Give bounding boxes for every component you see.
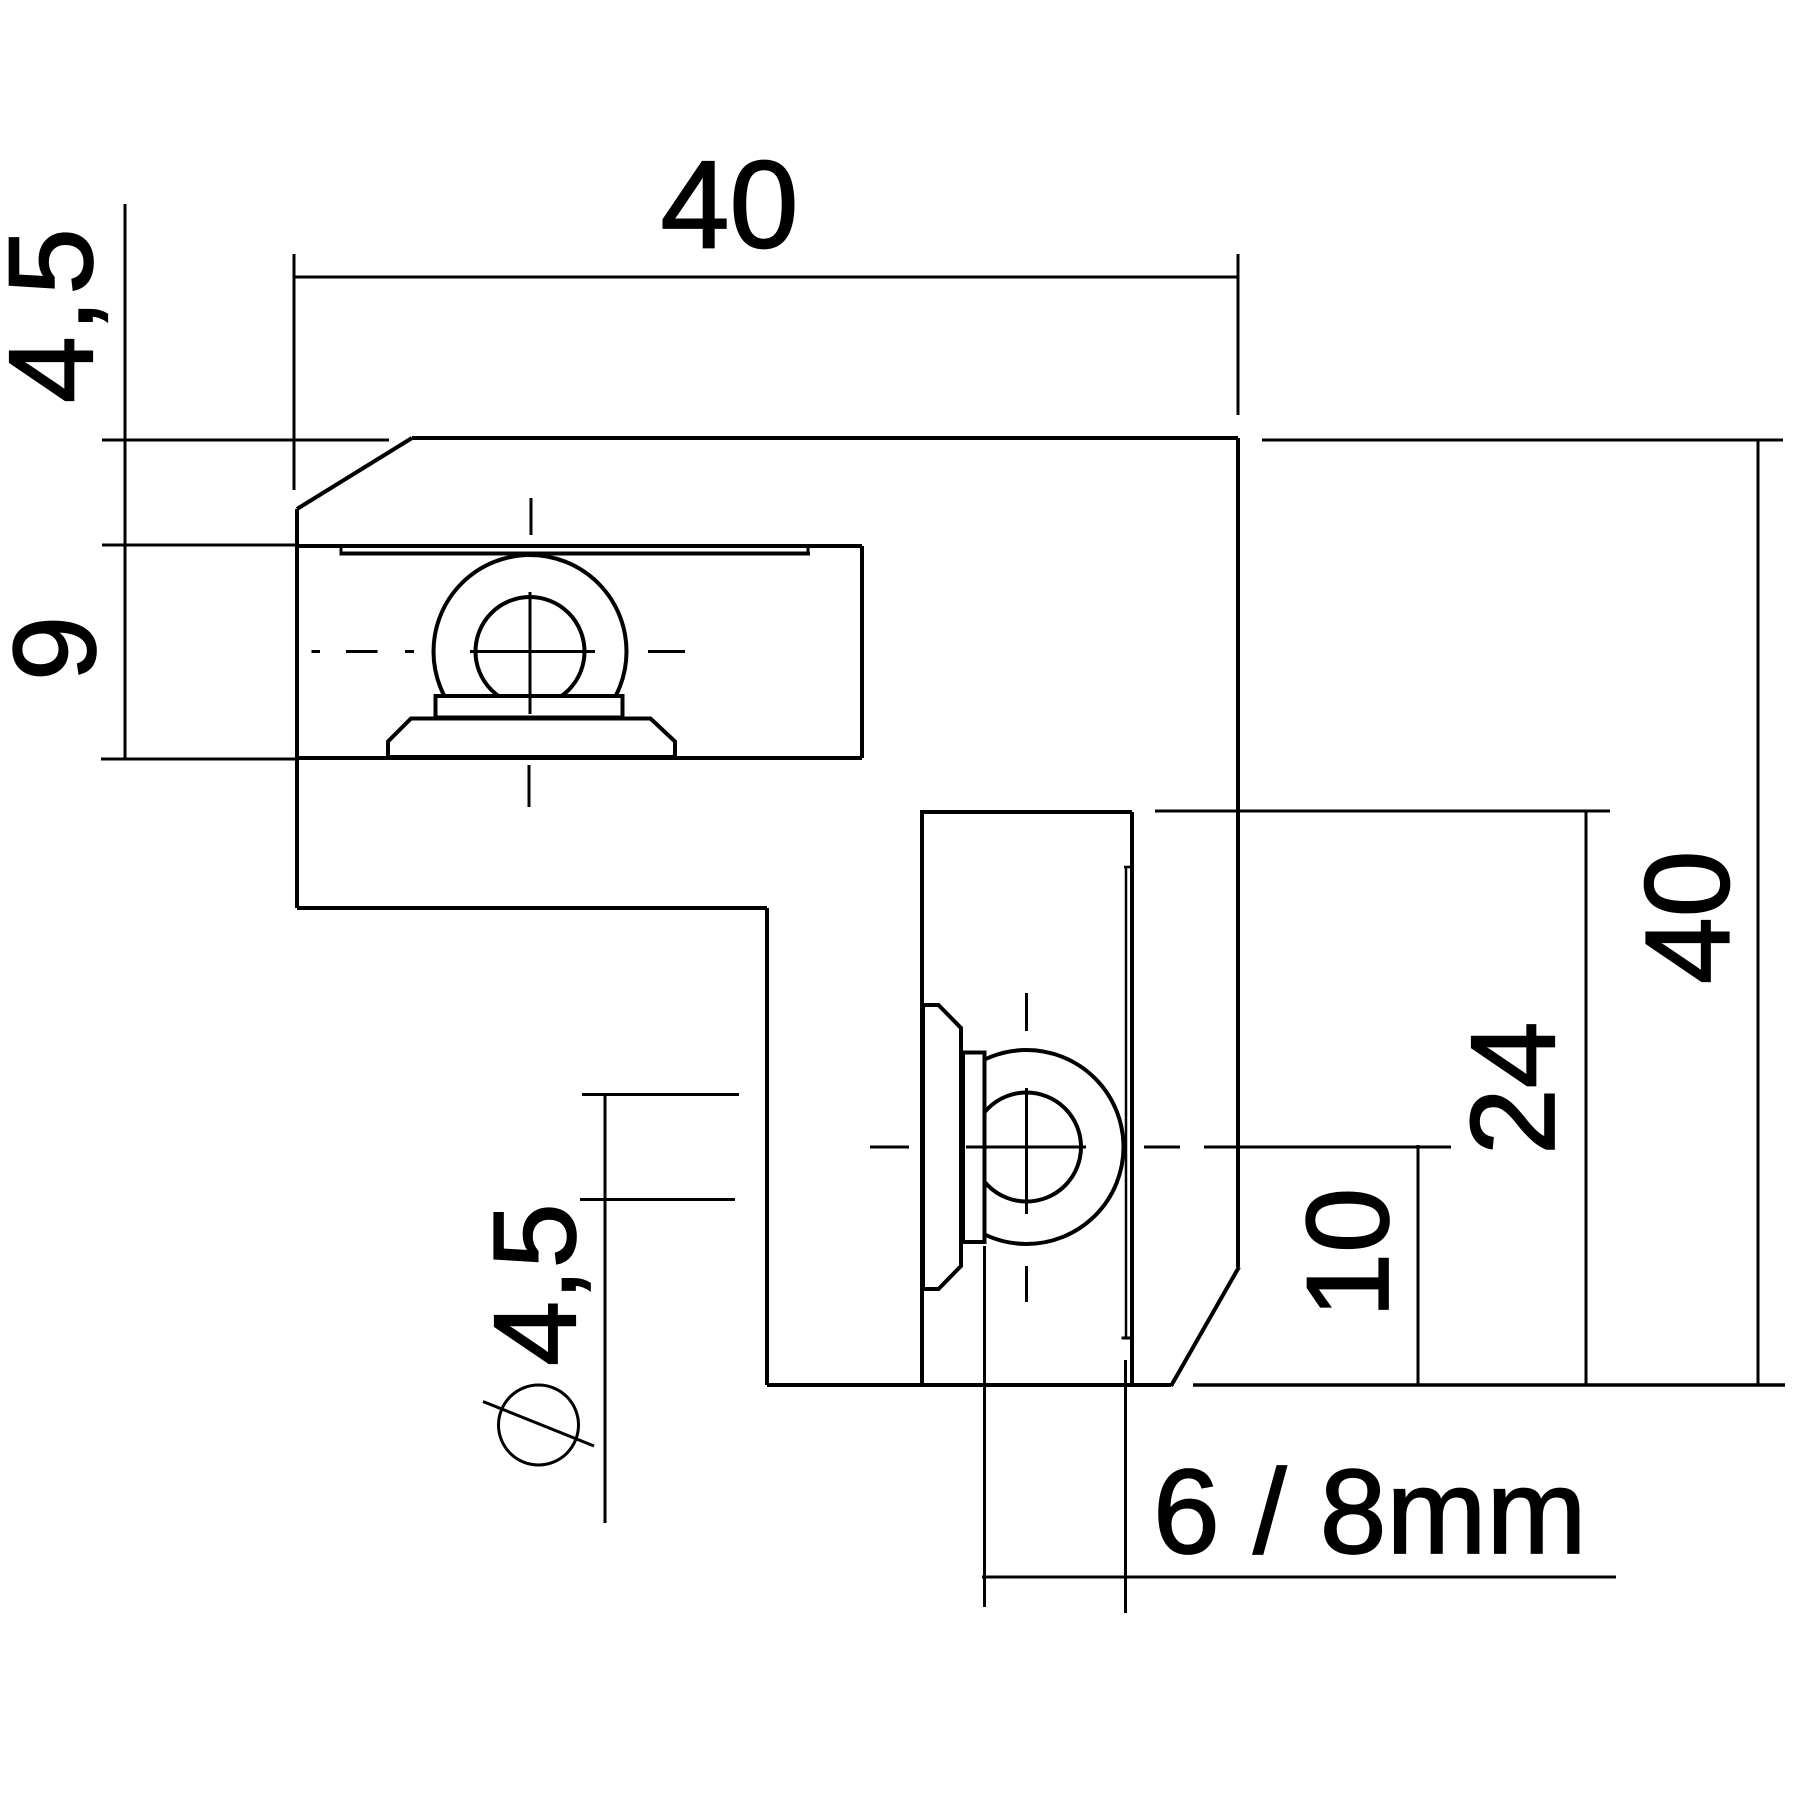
upper vertical center line ticks <box>529 498 531 807</box>
lower screw outer ring <box>930 1050 1124 1244</box>
right 40 top extension line <box>1262 439 1783 442</box>
lower pressure pad trapezoid <box>923 1005 961 1289</box>
diameter symbol slash <box>483 1402 594 1447</box>
svg-text:24: 24 <box>1446 1022 1580 1155</box>
right 40 dimension line <box>1757 440 1760 1385</box>
svg-text:4,5: 4,5 <box>0 224 118 403</box>
lower plate bottom end tick <box>1122 1337 1131 1340</box>
bottom extension line to right dimensions <box>1193 1383 1785 1387</box>
lower clamping plate strip <box>1125 867 1128 1337</box>
upper slot ceiling line <box>295 544 862 548</box>
glass thickness left extension line <box>983 1246 986 1607</box>
glass thickness dimension line <box>982 1576 1616 1579</box>
lower slot left wall <box>920 812 924 1385</box>
upper screw outer ring <box>434 555 627 748</box>
svg-text:40: 40 <box>1621 851 1755 984</box>
upper screw crosshair <box>470 592 595 714</box>
glass thickness right extension line <box>1124 1360 1127 1613</box>
lower screw crosshair <box>966 1088 1086 1214</box>
upper horizontal center line (dash-dot) <box>312 650 686 653</box>
extension line at slot ceiling <box>102 544 297 547</box>
lower washer block <box>963 1053 985 1243</box>
hole diameter upper extension line <box>582 1093 739 1096</box>
upper clamping plate strip <box>341 552 810 556</box>
top 40 left extension line <box>293 254 296 490</box>
left dimension line for 4,5 and 9 <box>124 204 127 758</box>
lower vertical center line ticks <box>1025 993 1028 1302</box>
24 extension line <box>1155 810 1610 813</box>
lower slot right wall <box>1130 812 1134 1385</box>
10 extension line from screw axis <box>1204 1146 1451 1149</box>
svg-text:4,5: 4,5 <box>469 1203 600 1366</box>
top 40 dimension line <box>294 276 1238 279</box>
upper slot floor line <box>295 756 862 760</box>
svg-text:10: 10 <box>1282 1188 1413 1318</box>
10 dimension line <box>1417 1145 1420 1385</box>
hole diameter leader line <box>604 1095 607 1523</box>
diameter symbol circle <box>499 1385 579 1465</box>
upper plate right end tick <box>807 547 810 556</box>
lower slot top line <box>920 810 1132 814</box>
svg-text:40: 40 <box>661 137 799 275</box>
svg-text:9: 9 <box>0 616 120 681</box>
upper washer block <box>436 696 623 718</box>
upper plate left end tick <box>340 547 343 556</box>
lower screw hole circle <box>972 1093 1081 1202</box>
extension line at slot floor <box>101 758 297 761</box>
lower plate top end tick <box>1124 866 1132 869</box>
svg-text:6 / 8mm: 6 / 8mm <box>1153 1445 1586 1579</box>
upper slot right wall <box>860 546 864 758</box>
lower horizontal center line dashes <box>870 1146 1180 1149</box>
extension line at part top face <box>102 439 389 442</box>
24 dimension line <box>1585 811 1588 1385</box>
upper pressure pad trapezoid <box>388 719 675 758</box>
upper screw hole circle <box>476 597 585 706</box>
hole diameter lower extension line <box>580 1198 735 1201</box>
top 40 right extension line <box>1237 254 1240 415</box>
clamp body outline (L-shaped glass-clamp side profile) <box>297 438 1239 1386</box>
